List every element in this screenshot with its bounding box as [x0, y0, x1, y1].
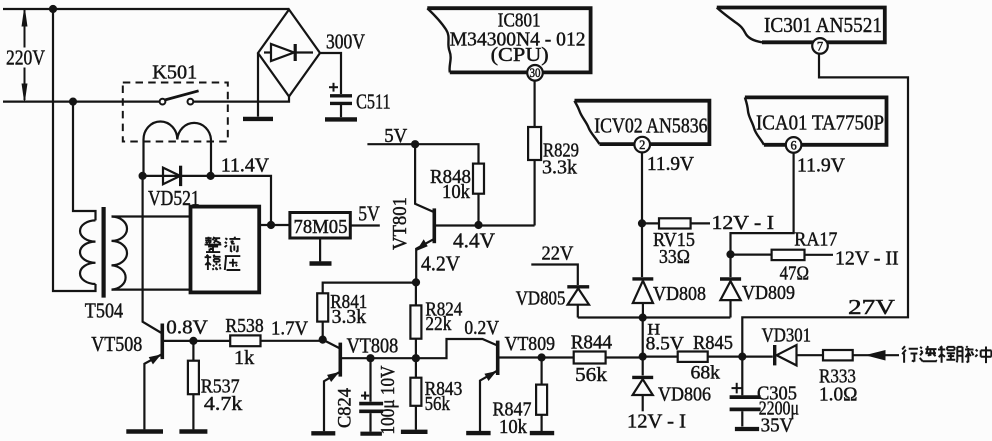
- svg-text:27V: 27V: [848, 295, 895, 319]
- svg-text:56k: 56k: [425, 393, 450, 415]
- svg-text:R845: R845: [693, 332, 733, 354]
- svg-text:ICA01 TA7750P: ICA01 TA7750P: [756, 111, 884, 135]
- svg-text:4.2V: 4.2V: [421, 252, 460, 276]
- svg-text:56k: 56k: [575, 364, 608, 386]
- svg-text:0.2V: 0.2V: [464, 317, 499, 339]
- svg-text:C511: C511: [356, 90, 391, 114]
- svg-text:1.7V: 1.7V: [271, 318, 308, 340]
- svg-text:68k: 68k: [691, 364, 721, 384]
- svg-text:11.9V: 11.9V: [797, 156, 845, 177]
- svg-text:12V - II: 12V - II: [835, 248, 899, 270]
- svg-text:5V: 5V: [384, 125, 408, 147]
- svg-text:1k: 1k: [234, 347, 255, 369]
- svg-text:4.7k: 4.7k: [204, 393, 243, 415]
- svg-text:22k: 22k: [425, 313, 451, 335]
- svg-text:VT508: VT508: [91, 332, 142, 356]
- svg-text:R844: R844: [571, 332, 612, 354]
- svg-text:3.3k: 3.3k: [542, 157, 578, 179]
- svg-text:4.4V: 4.4V: [453, 229, 495, 253]
- svg-text:IC301 AN5521: IC301 AN5521: [764, 13, 882, 37]
- svg-text:VD805: VD805: [516, 288, 566, 310]
- svg-text:VT808: VT808: [347, 333, 399, 357]
- svg-text:3.3k: 3.3k: [332, 307, 367, 328]
- svg-text:6: 6: [790, 138, 796, 152]
- svg-text:VD808: VD808: [653, 283, 706, 305]
- svg-text:10k: 10k: [499, 416, 528, 438]
- svg-text:300V: 300V: [326, 30, 365, 54]
- svg-text:10k: 10k: [442, 181, 471, 203]
- svg-text:VD806: VD806: [658, 384, 711, 405]
- svg-text:35V: 35V: [761, 415, 794, 437]
- svg-text:78M05: 78M05: [294, 216, 348, 238]
- svg-text:100μ 10V: 100μ 10V: [378, 366, 399, 435]
- svg-text:T504: T504: [85, 299, 124, 323]
- svg-text:R538: R538: [225, 315, 263, 337]
- svg-text:7: 7: [817, 39, 823, 53]
- svg-text:K501: K501: [152, 62, 197, 84]
- svg-text:ICV02 AN5836: ICV02 AN5836: [594, 114, 707, 138]
- svg-text:11.4V: 11.4V: [221, 155, 269, 176]
- svg-text:0.8V: 0.8V: [166, 317, 208, 339]
- svg-text:5V: 5V: [358, 202, 380, 226]
- svg-text:12V - I: 12V - I: [712, 212, 775, 234]
- svg-text:VT801: VT801: [389, 197, 411, 250]
- svg-text:220V: 220V: [6, 46, 45, 70]
- svg-text:C824: C824: [334, 388, 355, 428]
- svg-text:47Ω: 47Ω: [780, 262, 809, 284]
- svg-text:33Ω: 33Ω: [659, 247, 690, 268]
- svg-text:30: 30: [530, 66, 541, 80]
- svg-text:VD809: VD809: [742, 282, 795, 304]
- svg-text:2: 2: [639, 138, 645, 152]
- svg-text:VD301: VD301: [762, 325, 811, 347]
- svg-text:11.9V: 11.9V: [647, 154, 694, 175]
- svg-text:RA17: RA17: [794, 229, 837, 251]
- svg-text:1.0Ω: 1.0Ω: [819, 384, 858, 406]
- svg-text:12V - I: 12V - I: [627, 412, 686, 433]
- svg-text:22V: 22V: [542, 243, 574, 265]
- svg-text:VT809: VT809: [505, 333, 555, 355]
- svg-text:(CPU): (CPU): [491, 44, 549, 66]
